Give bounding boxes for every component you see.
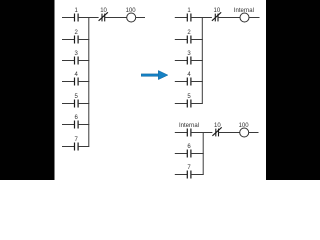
svg-text:10: 10	[214, 123, 221, 129]
wire L rung1 middle	[78, 17, 99, 19]
coil 100 L	[127, 13, 136, 22]
wire TR rung1 left lead	[175, 17, 188, 19]
svg-text:2: 2	[75, 30, 79, 36]
svg-text:2: 2	[187, 30, 191, 36]
contact 3 branch L	[62, 57, 89, 65]
svg-text:4: 4	[75, 72, 79, 78]
wire BR rung1 middle	[191, 132, 213, 134]
contact 2 branch L	[62, 36, 89, 44]
wire L rung1 right lead	[136, 17, 145, 19]
svg-text:6: 6	[187, 144, 191, 150]
coil 100 BR	[240, 128, 249, 137]
wire L rung1 left lead	[62, 17, 75, 19]
svg-text:5: 5	[187, 94, 191, 100]
svg-text:3: 3	[187, 51, 191, 57]
svg-text:3: 3	[75, 51, 79, 57]
bus wire left ladder	[88, 18, 90, 147]
wire BR rung1 to coil	[219, 132, 240, 134]
svg-text:Internal: Internal	[234, 8, 254, 14]
contact 4 branch L	[62, 78, 89, 86]
contact 5 branch L	[62, 100, 89, 108]
wire TR rung1 middle	[191, 17, 212, 19]
wire TR rung1 right lead	[249, 17, 260, 19]
bus wire bottom right ladder	[202, 133, 204, 175]
svg-text:10: 10	[100, 8, 107, 14]
contact bars L rung1	[75, 14, 79, 22]
contact 7 branch BR	[175, 171, 204, 179]
NC contact 10 BR	[212, 127, 221, 136]
contact bars TR rung1	[187, 14, 191, 22]
right pillarbox bar	[266, 0, 320, 180]
svg-text:5: 5	[75, 94, 79, 100]
contact 7 branch L	[62, 143, 89, 151]
blue transform arrow	[141, 71, 168, 80]
svg-text:1: 1	[187, 8, 191, 14]
contact 5 branch TR	[175, 100, 203, 108]
contact bars BR rung1	[187, 129, 191, 137]
NC contact 10 TR	[212, 12, 221, 21]
NC contact 10 L	[99, 12, 108, 21]
coil Internal TR	[240, 13, 249, 22]
svg-text:4: 4	[187, 72, 191, 78]
svg-text:100: 100	[126, 8, 137, 14]
svg-text:1: 1	[75, 8, 79, 14]
svg-text:7: 7	[75, 137, 79, 143]
wire TR rung1 to coil	[218, 17, 240, 19]
contact 6 branch L	[62, 121, 89, 129]
wire L rung1 to coil	[105, 17, 127, 19]
bus wire top right ladder	[201, 18, 203, 104]
svg-text:Internal: Internal	[179, 123, 199, 129]
contact 2 branch TR	[175, 36, 203, 44]
contact 3 branch TR	[175, 57, 203, 65]
wire BR rung1 left lead	[175, 132, 188, 134]
left pillarbox bar	[0, 0, 55, 180]
svg-text:6: 6	[75, 115, 79, 121]
wire BR rung1 right lead	[249, 132, 259, 134]
svg-text:100: 100	[239, 123, 250, 129]
svg-text:7: 7	[187, 165, 191, 171]
svg-text:10: 10	[214, 8, 221, 14]
contact 4 branch TR	[175, 78, 203, 86]
contact 6 branch BR	[175, 150, 204, 158]
